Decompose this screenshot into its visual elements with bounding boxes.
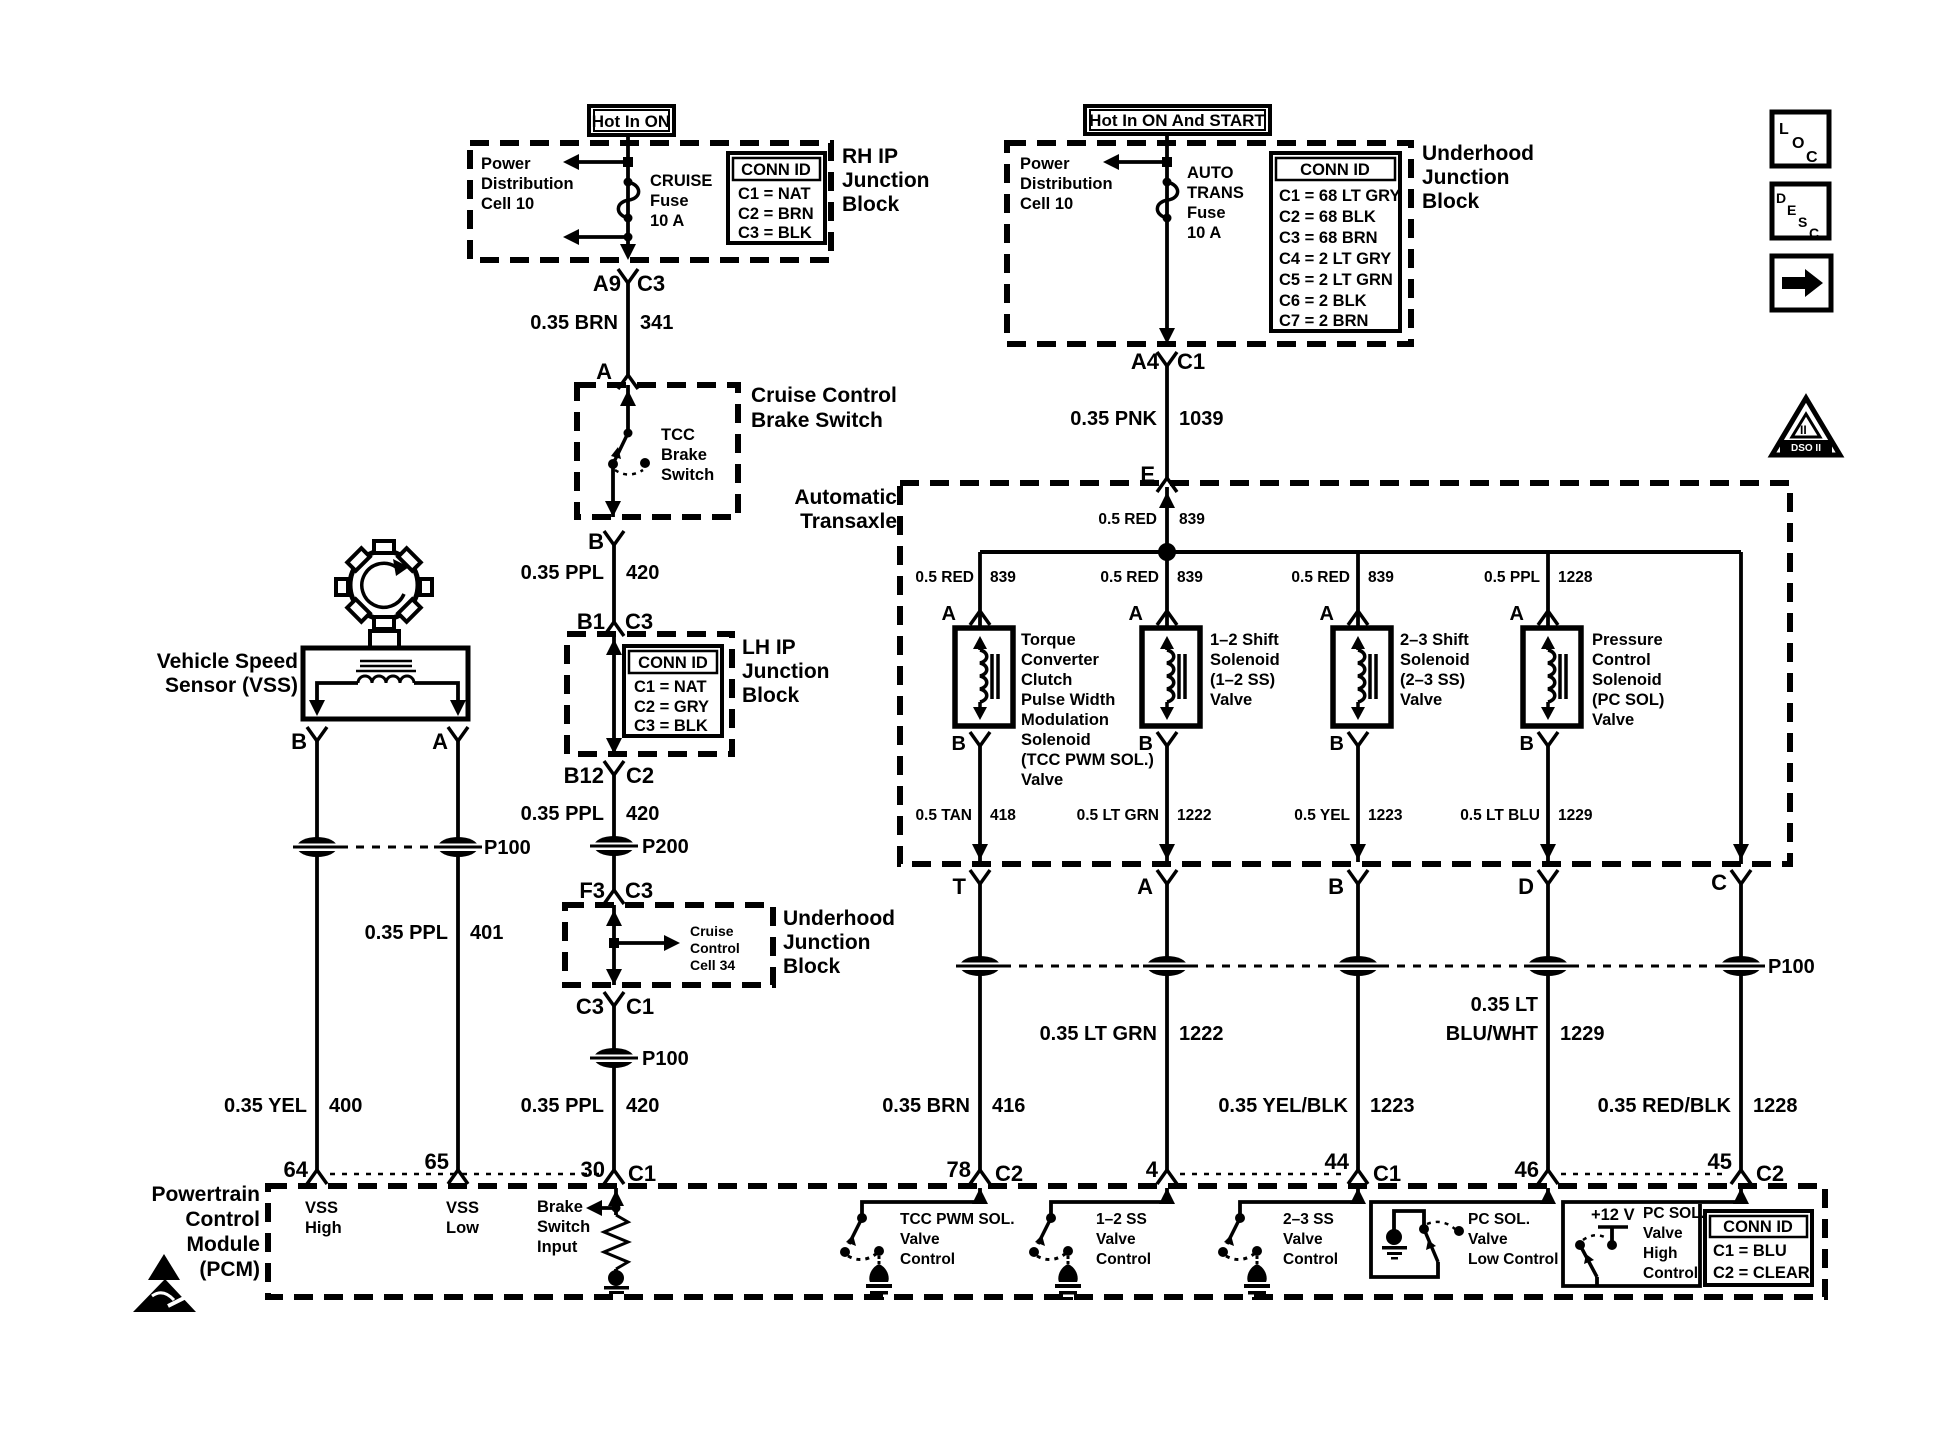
svg-text:(1–2 SS): (1–2 SS) xyxy=(1210,671,1275,689)
wire 0.35 PPL 420 (upper) xyxy=(612,545,616,622)
label box "Hot In ON" xyxy=(589,106,674,135)
svg-text:C1 = NAT: C1 = NAT xyxy=(738,185,811,203)
svg-text:839: 839 xyxy=(1179,511,1205,528)
svg-text:C3: C3 xyxy=(625,878,653,903)
power distribution arrow xyxy=(1103,154,1172,170)
svg-text:4: 4 xyxy=(1146,1157,1159,1182)
svg-text:Valve: Valve xyxy=(1468,1231,1508,1248)
svg-text:Valve: Valve xyxy=(1210,691,1252,709)
node E xyxy=(1140,462,1177,492)
svg-text:1–2 SS: 1–2 SS xyxy=(1096,1211,1147,1228)
wire 0.35 PNK 1039 xyxy=(1165,366,1169,478)
svg-text:P100: P100 xyxy=(642,1048,689,1070)
svg-text:839: 839 xyxy=(990,569,1016,586)
1-2 SS valve control driver xyxy=(1029,1188,1175,1300)
svg-text:Modulation: Modulation xyxy=(1021,711,1109,729)
svg-text:A: A xyxy=(1129,603,1143,625)
wire 0.35 PPL 420 (middle) xyxy=(612,775,616,890)
svg-text:BLU/WHT: BLU/WHT xyxy=(1446,1023,1538,1045)
svg-text:Valve: Valve xyxy=(1592,711,1634,729)
svg-text:0.35 PPL: 0.35 PPL xyxy=(365,922,448,944)
svg-text:High: High xyxy=(305,1219,342,1237)
svg-text:(TCC PWM SOL.): (TCC PWM SOL.) xyxy=(1021,751,1154,769)
pin 30 / C1 xyxy=(581,1157,657,1186)
svg-text:C6 = 2 BLK: C6 = 2 BLK xyxy=(1279,292,1367,310)
svg-text:O: O xyxy=(1792,135,1804,152)
DESC icon xyxy=(1772,184,1829,241)
svg-text:1–2 Shift: 1–2 Shift xyxy=(1210,631,1279,649)
node B below TCC PWM solenoid xyxy=(952,732,990,755)
solenoid PC SOL box xyxy=(1523,628,1581,726)
svg-text:Underhood: Underhood xyxy=(783,907,895,930)
CONN ID table (Underhood) xyxy=(1271,153,1401,331)
svg-text:0.5 YEL: 0.5 YEL xyxy=(1294,807,1350,824)
svg-text:CONN ID: CONN ID xyxy=(638,654,708,672)
forward arrow icon xyxy=(1772,256,1831,310)
svg-text:0.35 BRN: 0.35 BRN xyxy=(530,312,618,334)
svg-text:C4 = 2 LT GRY: C4 = 2 LT GRY xyxy=(1279,250,1391,268)
CONN ID table (PCM) xyxy=(1705,1211,1812,1285)
exit arrow at RH IP block bottom xyxy=(620,244,636,260)
svg-text:Vehicle Speed: Vehicle Speed xyxy=(157,650,298,673)
svg-text:Powertrain: Powertrain xyxy=(151,1183,260,1206)
node T xyxy=(953,870,990,899)
svg-text:2–3 Shift: 2–3 Shift xyxy=(1400,631,1469,649)
svg-text:B: B xyxy=(1139,733,1153,755)
node C3/C1 xyxy=(576,992,654,1019)
svg-text:78: 78 xyxy=(947,1157,971,1182)
svg-text:0.35 PPL: 0.35 PPL xyxy=(521,1095,604,1117)
node B12/C2 xyxy=(564,761,654,788)
svg-text:839: 839 xyxy=(1368,569,1394,586)
svg-text:F3: F3 xyxy=(579,878,605,903)
svg-text:Control: Control xyxy=(1592,651,1651,669)
svg-text:Switch: Switch xyxy=(661,466,714,484)
svg-text:DSO II: DSO II xyxy=(1791,443,1821,454)
svg-text:Block: Block xyxy=(742,684,800,707)
svg-text:Block: Block xyxy=(783,955,841,978)
VSS box xyxy=(303,648,468,719)
node A4/C1 xyxy=(1131,349,1205,374)
svg-text:C3: C3 xyxy=(576,994,604,1019)
ground at brake resistor xyxy=(604,1269,629,1294)
svg-text:Valve: Valve xyxy=(1021,771,1063,789)
svg-text:TCC PWM SOL.: TCC PWM SOL. xyxy=(900,1211,1015,1228)
svg-text:T: T xyxy=(953,874,967,899)
svg-text:0.35 YEL: 0.35 YEL xyxy=(224,1095,307,1117)
power distribution arrow (bottom) xyxy=(563,229,633,245)
svg-text:A: A xyxy=(596,359,612,384)
VSS coil xyxy=(358,676,414,683)
svg-text:401: 401 xyxy=(470,922,503,944)
svg-text:Pulse Width: Pulse Width xyxy=(1021,691,1115,709)
wire C to PCM 45 xyxy=(1739,884,1743,1170)
svg-text:Valve: Valve xyxy=(1400,691,1442,709)
node D xyxy=(1518,870,1558,899)
svg-text:D: D xyxy=(1518,874,1534,899)
wire to P100 xyxy=(612,1006,616,1170)
svg-text:1222: 1222 xyxy=(1177,807,1211,824)
LOC icon xyxy=(1772,112,1829,166)
node B below PC solenoid xyxy=(1520,732,1558,755)
svg-text:P100: P100 xyxy=(1768,956,1815,978)
wire from Hot In ON into RH IP block xyxy=(626,135,630,250)
connector dotted line 64-65-30 xyxy=(330,1173,600,1176)
svg-text:Cell 10: Cell 10 xyxy=(481,195,534,213)
svg-text:B12: B12 xyxy=(564,763,604,788)
wire 0.5 TAN 418 xyxy=(972,746,988,862)
svg-text:Power: Power xyxy=(1020,155,1070,173)
power distribution arrow (top) xyxy=(563,154,633,170)
svg-text:E: E xyxy=(1787,202,1796,218)
node B below 2-3 solenoid xyxy=(1330,732,1368,755)
svg-text:L: L xyxy=(1779,121,1789,138)
svg-text:CONN ID: CONN ID xyxy=(741,161,811,179)
connector P100 pair on VSS wires xyxy=(293,837,531,859)
svg-text:1228: 1228 xyxy=(1558,569,1593,586)
svg-text:A9: A9 xyxy=(593,271,621,296)
svg-text:0.5 RED: 0.5 RED xyxy=(1098,511,1157,528)
wire B to PCM 44 xyxy=(1356,884,1360,1170)
node A (VSS) xyxy=(432,727,468,754)
node B (VSS) xyxy=(291,727,327,754)
svg-text:Control: Control xyxy=(1643,1265,1698,1282)
solenoid TCC PWM SOL box xyxy=(955,628,1013,726)
label box "Hot In ON And START" xyxy=(1085,106,1270,134)
solenoid 2-3 shift box xyxy=(1333,628,1391,726)
pin 45 / C2 xyxy=(1708,1149,1785,1186)
solenoid 1-2 shift box xyxy=(1142,628,1200,726)
svg-text:P200: P200 xyxy=(642,836,689,858)
svg-text:C7 = 2 BRN: C7 = 2 BRN xyxy=(1279,312,1368,330)
pin 78 / C2 xyxy=(947,1157,1024,1186)
svg-text:Underhood: Underhood xyxy=(1422,142,1534,165)
node A xyxy=(596,359,638,389)
fuse CRUISE 10A xyxy=(618,178,638,223)
brake switch input circuit xyxy=(586,1188,624,1216)
svg-text:416: 416 xyxy=(992,1095,1025,1117)
svg-text:1228: 1228 xyxy=(1753,1095,1798,1117)
svg-text:418: 418 xyxy=(990,807,1016,824)
svg-text:0.35 YEL/BLK: 0.35 YEL/BLK xyxy=(1218,1095,1348,1117)
svg-text:CONN ID: CONN ID xyxy=(1300,161,1370,179)
svg-text:0.35 LT: 0.35 LT xyxy=(1471,994,1538,1016)
svg-text:A: A xyxy=(432,729,448,754)
pin 46 xyxy=(1515,1157,1558,1184)
svg-text:B: B xyxy=(1330,733,1344,755)
svg-text:64: 64 xyxy=(284,1157,309,1182)
branch wire to PC solenoid, 0.5 PPL 1228 xyxy=(1538,552,1558,628)
svg-text:0.5 RED: 0.5 RED xyxy=(915,569,974,586)
svg-text:PC SOL.: PC SOL. xyxy=(1643,1205,1705,1222)
branch wire to 1-2 shift solenoid, 0.5 RED 839 xyxy=(1157,552,1177,628)
svg-text:Low Control: Low Control xyxy=(1468,1251,1558,1268)
svg-text:+12 V: +12 V xyxy=(1591,1206,1635,1224)
svg-text:400: 400 xyxy=(329,1095,362,1117)
TCC PWM SOL valve control driver xyxy=(840,1188,988,1300)
svg-text:Control: Control xyxy=(185,1208,260,1231)
pin 44 / C1 xyxy=(1325,1149,1402,1186)
svg-text:30: 30 xyxy=(581,1157,605,1182)
svg-text:0.35 LT GRN: 0.35 LT GRN xyxy=(1040,1023,1157,1045)
return wire down right side to C xyxy=(1739,552,1743,864)
connector P100 row xyxy=(956,956,1815,978)
svg-text:0.35 PPL: 0.35 PPL xyxy=(521,803,604,825)
svg-text:1229: 1229 xyxy=(1558,807,1593,824)
svg-text:S: S xyxy=(1798,214,1807,230)
svg-text:Pressure: Pressure xyxy=(1592,631,1663,649)
svg-text:C2 = 68 BLK: C2 = 68 BLK xyxy=(1279,208,1376,226)
svg-text:VSS: VSS xyxy=(305,1199,338,1217)
svg-text:0.35 PPL: 0.35 PPL xyxy=(521,562,604,584)
arrow on return wire at transaxle border xyxy=(1733,844,1749,860)
svg-text:Brake Switch: Brake Switch xyxy=(751,409,883,432)
entry arrow xyxy=(620,385,636,433)
svg-text:(2–3 SS): (2–3 SS) xyxy=(1400,671,1465,689)
svg-text:Hot In ON: Hot In ON xyxy=(592,112,670,131)
svg-text:C2: C2 xyxy=(1756,1161,1784,1186)
svg-text:C1 = 68 LT GRY: C1 = 68 LT GRY xyxy=(1279,187,1401,205)
svg-text:C: C xyxy=(1806,149,1818,166)
svg-text:B: B xyxy=(1328,874,1344,899)
svg-text:C3 = 68 BRN: C3 = 68 BRN xyxy=(1279,229,1378,247)
svg-text:Solenoid: Solenoid xyxy=(1400,651,1470,669)
svg-text:C3 = BLK: C3 = BLK xyxy=(738,224,812,242)
Automatic Transaxle dashed box xyxy=(900,483,1790,864)
svg-text:0.5 TAN: 0.5 TAN xyxy=(915,807,972,824)
reluctor gear icon xyxy=(336,541,432,629)
svg-text:A: A xyxy=(1510,603,1524,625)
svg-text:C: C xyxy=(1711,870,1727,895)
branch arrow to Cruise Control Cell 34 xyxy=(609,935,680,951)
ESD warning triangle (large) xyxy=(133,1279,196,1312)
svg-text:Fuse: Fuse xyxy=(1187,204,1226,222)
svg-text:P100: P100 xyxy=(484,837,531,859)
node A9/C3 xyxy=(593,269,665,296)
svg-text:Brake: Brake xyxy=(537,1198,583,1216)
svg-text:Distribution: Distribution xyxy=(1020,175,1113,193)
svg-text:1039: 1039 xyxy=(1179,408,1224,430)
svg-text:Input: Input xyxy=(537,1238,578,1256)
svg-text:Cell 34: Cell 34 xyxy=(690,957,735,973)
wire 0.5 YEL 1223 xyxy=(1350,746,1366,862)
svg-text:Module: Module xyxy=(187,1233,261,1256)
fuse AUTO TRANS 10A xyxy=(1157,178,1177,223)
wire T to PCM 78 xyxy=(978,884,982,1170)
svg-text:420: 420 xyxy=(626,803,659,825)
svg-text:C2: C2 xyxy=(626,763,654,788)
svg-text:Block: Block xyxy=(1422,190,1480,213)
svg-text:839: 839 xyxy=(1177,569,1203,586)
svg-text:Transaxle: Transaxle xyxy=(800,510,897,533)
svg-text:A4: A4 xyxy=(1131,349,1160,374)
svg-text:C5 = 2 LT GRN: C5 = 2 LT GRN xyxy=(1279,271,1393,289)
wire E to junction, 0.5 RED 839 xyxy=(1159,487,1175,552)
DSO II triangle icon xyxy=(1772,398,1840,455)
svg-text:B: B xyxy=(291,729,307,754)
svg-text:B: B xyxy=(1520,733,1534,755)
pin 65 xyxy=(425,1149,468,1184)
svg-text:2–3 SS: 2–3 SS xyxy=(1283,1211,1334,1228)
svg-text:CRUISE: CRUISE xyxy=(650,172,712,190)
svg-text:Low: Low xyxy=(446,1219,479,1237)
svg-text:Solenoid: Solenoid xyxy=(1210,651,1280,669)
svg-text:(PCM): (PCM) xyxy=(199,1258,260,1281)
svg-text:D: D xyxy=(1776,190,1786,206)
wire from Hot box through block xyxy=(1165,134,1169,334)
svg-text:LH IP: LH IP xyxy=(742,636,796,659)
svg-text:Junction: Junction xyxy=(1422,166,1510,189)
svg-text:C3 = BLK: C3 = BLK xyxy=(634,717,708,735)
node B1/C3 xyxy=(577,609,653,636)
svg-text:Control: Control xyxy=(1096,1251,1151,1268)
svg-text:1223: 1223 xyxy=(1370,1095,1415,1117)
svg-text:1229: 1229 xyxy=(1560,1023,1605,1045)
Underhood Junction Block dashed box (top right) xyxy=(1007,143,1411,344)
svg-text:0.35 BRN: 0.35 BRN xyxy=(882,1095,970,1117)
wire through block xyxy=(606,634,622,754)
svg-text:AUTO: AUTO xyxy=(1187,164,1234,182)
svg-text:High: High xyxy=(1643,1245,1677,1262)
svg-text:Block: Block xyxy=(842,193,900,216)
node B xyxy=(588,529,624,554)
svg-text:0.5 RED: 0.5 RED xyxy=(1100,569,1159,586)
wire 0.5 LT BLU 1229 xyxy=(1540,746,1556,862)
wire A to PCM 4 xyxy=(1165,884,1169,1170)
svg-text:Clutch: Clutch xyxy=(1021,671,1072,689)
CONN ID table (LH IP) xyxy=(624,646,722,736)
wire VSS A to PCM 65 xyxy=(456,741,460,1170)
svg-text:0.5 PPL: 0.5 PPL xyxy=(1484,569,1540,586)
connector dotted line 46-45 xyxy=(1561,1173,1727,1176)
node B (transaxle out) xyxy=(1328,870,1368,899)
node F3/C3 xyxy=(579,878,653,904)
svg-text:Junction: Junction xyxy=(742,660,830,683)
connector dotted line 4-44 xyxy=(1180,1173,1344,1176)
svg-text:A: A xyxy=(1137,874,1153,899)
svg-text:II: II xyxy=(1800,423,1807,437)
svg-text:Solenoid: Solenoid xyxy=(1592,671,1662,689)
svg-text:1223: 1223 xyxy=(1368,807,1403,824)
svg-text:0.35 PNK: 0.35 PNK xyxy=(1070,408,1157,430)
splice junction node xyxy=(1158,543,1176,561)
svg-text:(PC SOL): (PC SOL) xyxy=(1592,691,1664,709)
sensor nub xyxy=(370,631,399,648)
node B below 1-2 solenoid xyxy=(1139,732,1177,755)
svg-text:Control: Control xyxy=(1283,1251,1338,1268)
svg-text:A: A xyxy=(1320,603,1334,625)
wire through block xyxy=(606,905,622,985)
svg-text:C1 = BLU: C1 = BLU xyxy=(1713,1242,1787,1260)
svg-text:Hot In ON And START: Hot In ON And START xyxy=(1089,111,1265,130)
Cruise Control Brake Switch dashed box xyxy=(577,385,738,517)
svg-text:C2: C2 xyxy=(995,1161,1023,1186)
exit wire and arrow xyxy=(605,464,621,517)
RH IP Junction Block dashed box xyxy=(470,143,831,260)
svg-text:Automatic: Automatic xyxy=(794,486,897,509)
svg-text:Brake: Brake xyxy=(661,446,707,464)
svg-text:B1: B1 xyxy=(577,609,605,634)
exit arrow at block bottom xyxy=(1159,328,1175,344)
Underhood Junction Block dashed box (center) xyxy=(565,905,773,985)
svg-text:Fuse: Fuse xyxy=(650,192,689,210)
svg-text:C1: C1 xyxy=(628,1161,656,1186)
svg-text:Valve: Valve xyxy=(1643,1225,1683,1242)
svg-text:Control: Control xyxy=(900,1251,955,1268)
wire 0.35 BRN 341 xyxy=(626,283,630,375)
svg-text:C: C xyxy=(1809,225,1819,241)
svg-text:Valve: Valve xyxy=(900,1231,940,1248)
connector P100 (center) xyxy=(590,1048,689,1070)
svg-text:0.5 LT GRN: 0.5 LT GRN xyxy=(1077,807,1159,824)
2-3 SS valve control driver xyxy=(1218,1188,1366,1300)
connector P200 xyxy=(590,836,689,858)
svg-text:Switch: Switch xyxy=(537,1218,590,1236)
wire 0.5 LT GRN 1222 xyxy=(1159,746,1175,862)
svg-text:A: A xyxy=(942,603,956,625)
svg-text:RH IP: RH IP xyxy=(842,145,898,168)
svg-text:Cruise: Cruise xyxy=(690,923,734,939)
node C xyxy=(1711,870,1751,895)
svg-text:1222: 1222 xyxy=(1179,1023,1224,1045)
svg-text:Cruise Control: Cruise Control xyxy=(751,384,897,407)
PCM dashed box xyxy=(268,1186,1825,1297)
svg-text:VSS: VSS xyxy=(446,1199,479,1217)
svg-text:C1: C1 xyxy=(626,994,654,1019)
svg-text:341: 341 xyxy=(640,312,673,334)
pin 64 xyxy=(284,1157,327,1184)
svg-text:46: 46 xyxy=(1515,1157,1539,1182)
PC SOL valve low control xyxy=(1371,1188,1556,1277)
svg-text:0.5 RED: 0.5 RED xyxy=(1291,569,1350,586)
svg-text:Control: Control xyxy=(690,940,740,956)
svg-text:TRANS: TRANS xyxy=(1187,184,1244,202)
svg-text:C3: C3 xyxy=(637,271,665,296)
bus wire across transaxle xyxy=(980,550,1741,554)
svg-text:C2 = GRY: C2 = GRY xyxy=(634,698,709,716)
svg-text:Cell 10: Cell 10 xyxy=(1020,195,1073,213)
svg-text:C3: C3 xyxy=(625,609,653,634)
svg-text:C1: C1 xyxy=(1373,1161,1401,1186)
svg-text:CONN ID: CONN ID xyxy=(1723,1218,1793,1236)
svg-text:10 A: 10 A xyxy=(1187,224,1221,242)
svg-text:45: 45 xyxy=(1708,1149,1732,1174)
VSS internal wires xyxy=(309,683,358,716)
svg-text:Power: Power xyxy=(481,155,531,173)
svg-text:420: 420 xyxy=(626,562,659,584)
svg-text:B: B xyxy=(952,733,966,755)
svg-text:420: 420 xyxy=(626,1095,659,1117)
resistor (brake switch pull) xyxy=(604,1215,628,1269)
wire D to PCM 46 xyxy=(1546,884,1550,1170)
TCC brake switch xyxy=(608,429,650,475)
svg-text:Junction: Junction xyxy=(842,169,930,192)
svg-text:PC SOL.: PC SOL. xyxy=(1468,1211,1530,1228)
ESD warning triangle (small) xyxy=(148,1254,180,1280)
svg-text:44: 44 xyxy=(1325,1149,1350,1174)
svg-text:C1: C1 xyxy=(1177,349,1205,374)
svg-text:Distribution: Distribution xyxy=(481,175,574,193)
wire VSS B to PCM 64 xyxy=(315,741,319,1170)
PC SOL valve high control xyxy=(1563,1188,1749,1286)
svg-text:Valve: Valve xyxy=(1096,1231,1136,1248)
svg-text:Torque: Torque xyxy=(1021,631,1076,649)
svg-text:Valve: Valve xyxy=(1283,1231,1323,1248)
pin 4 xyxy=(1146,1157,1177,1184)
branch wire to 2-3 shift solenoid, 0.5 RED 839 xyxy=(1348,552,1368,628)
VSS pickup coil core xyxy=(356,661,416,671)
CONN ID table (RH IP) xyxy=(728,153,825,243)
